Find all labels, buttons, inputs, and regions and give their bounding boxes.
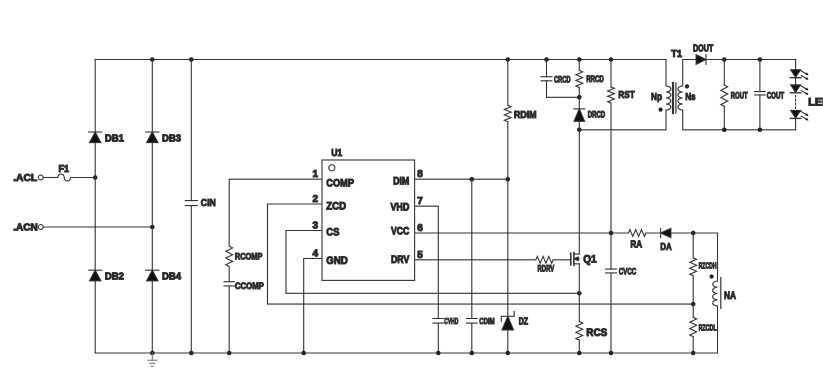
wire secondary top	[683, 60, 696, 87]
zener DZ	[501, 311, 528, 330]
wire DB1 to ACL node	[94, 143, 96, 178]
wire VHD pin7 run	[415, 206, 439, 318]
capacitor CIN	[185, 197, 216, 209]
node out top / ROUT	[722, 57, 727, 62]
svg-text:1: 1	[312, 169, 318, 180]
svg-text:DB1: DB1	[105, 133, 124, 144]
U1 pin name DRV	[391, 254, 410, 266]
diode DRCD	[574, 109, 606, 121]
svg-text:GND: GND	[326, 255, 348, 267]
svg-text:.ACN: .ACN	[13, 222, 38, 234]
U1 pin number 8	[417, 169, 423, 180]
svg-text:CRCD: CRCD	[554, 75, 571, 85]
wire RZCDH top	[692, 233, 694, 258]
U1 pin name GND	[326, 255, 348, 267]
U1 pin number 6	[417, 223, 423, 234]
wire LED1 to LED2	[795, 78, 797, 85]
node top bus / CIN	[189, 57, 194, 62]
wire junction to DRCD	[578, 97, 580, 109]
wire DZ to ground rail	[507, 330, 509, 353]
wire primary top	[665, 60, 667, 87]
svg-text:T1: T1	[671, 48, 682, 60]
node ground rail / CCOMP	[227, 351, 232, 356]
capacitor CDIM	[466, 316, 494, 326]
wire NA top	[717, 233, 719, 281]
LED D3	[790, 110, 808, 120]
U1 pin number 1	[312, 169, 318, 180]
wire CS pin3 run	[286, 231, 579, 294]
wire CCOMP to ground rail	[228, 286, 230, 353]
transformer T1 secondary winding Ns	[678, 86, 696, 110]
node DIM / CDIM	[470, 177, 475, 182]
transformer T1 label	[671, 48, 682, 60]
U1 pin name CS	[326, 227, 339, 239]
node VCC / RST / CVCC	[609, 231, 614, 236]
resistor RZCDH	[690, 258, 717, 276]
svg-text:CS: CS	[326, 227, 339, 239]
node Ns phase dot	[685, 84, 689, 88]
svg-text:.ACL: .ACL	[13, 172, 38, 184]
wire DIM node to DZ	[507, 179, 509, 316]
wire ACN to bridge	[44, 226, 153, 228]
svg-text:VCC: VCC	[391, 226, 409, 238]
wire COUT top	[759, 60, 761, 92]
node top bus / CRCD	[544, 57, 549, 62]
wire ZCD node to RZCDL	[692, 304, 694, 317]
svg-text:Np: Np	[651, 91, 662, 103]
svg-text:RRCD: RRCD	[586, 74, 604, 84]
diode DOUT	[693, 44, 713, 65]
U1 pin number 7	[417, 196, 423, 207]
node ground rail / CDIM	[470, 351, 475, 356]
transistor Q1	[571, 253, 597, 266]
svg-text:RCS: RCS	[586, 327, 607, 339]
node top bus / DB3	[150, 57, 155, 62]
svg-text:DRV: DRV	[391, 254, 410, 266]
LED D1	[790, 70, 808, 80]
node ground rail / RCS	[577, 351, 582, 356]
LED D2	[790, 85, 808, 95]
U1 pin number 5	[417, 250, 423, 261]
resistor RZCDL	[690, 317, 717, 336]
svg-text:RA: RA	[630, 240, 642, 251]
U1 pin name VHD	[391, 201, 410, 213]
capacitor CRCD	[541, 75, 571, 85]
node snubber junction	[577, 95, 582, 100]
wire RDIM to DIM node	[507, 122, 509, 180]
wire DA to NA	[671, 232, 718, 234]
svg-text:Ns: Ns	[685, 91, 696, 103]
svg-text:RZCDH: RZCDH	[699, 261, 717, 271]
wire DB2 to ground rail	[94, 281, 96, 353]
svg-text:CVHD: CVHD	[444, 316, 458, 326]
U1 pin number 3	[312, 221, 318, 232]
wire DB3 column top	[151, 60, 153, 133]
svg-text:DB2: DB2	[105, 272, 124, 283]
wire RRCD to junction	[578, 88, 580, 98]
wire ground rail	[95, 352, 717, 354]
svg-text:6: 6	[417, 223, 423, 234]
diode DB3	[146, 132, 182, 144]
svg-text:7: 7	[417, 196, 423, 207]
svg-text:3: 3	[312, 221, 318, 232]
node ACN / bridge	[150, 225, 155, 230]
wire DRCD to drain node	[578, 121, 580, 130]
aux winding NA	[713, 278, 736, 309]
svg-text:NA: NA	[724, 290, 736, 302]
svg-text:VHD: VHD	[391, 201, 410, 213]
wire DIM pin8 run	[415, 178, 508, 180]
svg-text:CIN: CIN	[201, 197, 216, 209]
node VCC / RZCDH	[691, 231, 696, 236]
svg-text:DRCD: DRCD	[588, 109, 606, 119]
wire dotted LED ellipsis	[795, 96, 797, 109]
wire DB1 column top	[94, 60, 96, 133]
resistor RA	[628, 230, 646, 251]
capacitor CCOMP	[224, 281, 264, 292]
svg-text:F1: F1	[59, 164, 70, 175]
node ground rail / DZ	[506, 351, 511, 356]
wire RZCDL to ground rail	[692, 337, 694, 353]
resistor RDRV	[536, 256, 554, 273]
node ground rail / GND pin	[301, 351, 306, 356]
wire RA to DA	[646, 232, 661, 234]
wire LED column top	[795, 60, 797, 70]
wire primary bottom	[665, 110, 667, 130]
resistor RCS	[576, 322, 607, 341]
resistor RCOMP	[226, 246, 263, 266]
wire ZCD pin2 run	[268, 204, 694, 304]
node ground rail / CIN	[189, 351, 194, 356]
ground earth symbol	[148, 353, 157, 366]
wire RDRV to gate	[553, 259, 571, 261]
wire drain node to primary	[579, 129, 666, 131]
wire DRV pin5 run	[415, 259, 536, 261]
wire CIN top	[190, 60, 192, 201]
svg-text:RST: RST	[618, 89, 635, 101]
node out bottom / COUT	[758, 128, 763, 133]
svg-text:2: 2	[312, 194, 318, 205]
wire CRCD to junction	[547, 81, 580, 98]
U1 pin name VCC	[391, 226, 409, 238]
node ground rail / CVHD	[436, 351, 441, 356]
wire DB3 to ACN node	[151, 143, 153, 227]
svg-text:CDIM: CDIM	[479, 316, 495, 326]
svg-text:DB3: DB3	[162, 133, 181, 144]
wire VCC pin6 run	[415, 232, 629, 234]
wire RST top	[610, 60, 612, 88]
svg-text:8: 8	[417, 169, 423, 180]
svg-text:4: 4	[312, 249, 318, 260]
wire ACL node to DB2	[94, 178, 96, 271]
svg-text:RDRV: RDRV	[538, 264, 555, 274]
node top bus / RDIM	[506, 57, 511, 62]
capacitor CVCC	[606, 233, 637, 353]
wire CDIM top	[471, 179, 473, 318]
svg-text:Q1: Q1	[583, 253, 596, 265]
wire RCOMP to CCOMP	[228, 267, 230, 282]
svg-text:COUT: COUT	[767, 91, 785, 101]
node NA phase dot	[710, 274, 714, 278]
wire ACL to fuse	[43, 177, 57, 179]
node DIM / RDIM	[506, 177, 511, 182]
node CS / Q1 source	[577, 291, 582, 296]
terminal ACN	[13, 222, 43, 234]
svg-text:COMP: COMP	[326, 178, 354, 190]
wire Q1 drain	[578, 130, 580, 254]
U1 pin name COMP	[326, 178, 354, 190]
svg-text:ROUT: ROUT	[731, 91, 748, 101]
U1 pin name ZCD	[326, 200, 346, 212]
node top bus / RST	[609, 57, 614, 62]
capacitor COUT	[755, 91, 785, 101]
wire CDIM to ground rail	[471, 323, 473, 353]
diode DB4	[146, 270, 182, 282]
wire CIN bottom	[190, 206, 192, 353]
wire Q1 source	[578, 264, 580, 294]
wire DOUT to LED string	[706, 59, 796, 61]
svg-text:CVCC: CVCC	[619, 267, 637, 278]
transformer T1 core	[673, 83, 676, 113]
wire secondary bottom	[683, 110, 796, 130]
wire GND pin4 run	[304, 259, 322, 354]
wire RCS to ground rail	[578, 340, 580, 353]
wire NA bottom	[717, 306, 719, 353]
svg-text:DIM: DIM	[393, 175, 409, 187]
wire RZCDH to ZCD node	[692, 276, 694, 304]
node ACL / bridge	[93, 175, 98, 180]
node top bus / RRCD	[577, 57, 582, 62]
wire Q1 source to RCS	[578, 293, 580, 321]
diode DB2	[89, 270, 125, 282]
svg-text:DOUT: DOUT	[693, 44, 713, 55]
wire RRCD top	[578, 60, 580, 71]
svg-text:RZCDL: RZCDL	[699, 323, 717, 333]
node ground rail / RZCDL	[691, 351, 696, 356]
capacitor CVHD	[433, 316, 458, 326]
resistor ROUT	[721, 85, 748, 106]
wire LED column bottom	[795, 118, 797, 129]
svg-text:DA: DA	[660, 241, 672, 253]
svg-text:DZ: DZ	[519, 316, 528, 327]
wire CVHD to ground rail	[437, 323, 439, 353]
wire top bus	[95, 59, 666, 61]
wire COUT bottom	[759, 95, 761, 130]
U1 pin name DIM	[393, 175, 409, 187]
wire CRCD top	[546, 60, 548, 77]
svg-text:LED: LED	[808, 97, 823, 109]
U1 pin number 2	[312, 194, 318, 205]
node ground rail / DB4	[150, 351, 155, 356]
wire COMP pin1 to RCOMP	[229, 179, 322, 246]
wire RST to VCC node	[610, 103, 612, 233]
diode DB1	[89, 132, 125, 144]
transformer T1 primary winding Np	[651, 86, 671, 110]
wire RDIM top	[507, 60, 509, 106]
resistor RDIM	[504, 105, 536, 121]
resistor RRCD	[576, 71, 604, 88]
resistor RST	[608, 87, 636, 103]
wire fuse to bridge	[71, 177, 96, 179]
wire ROUT bottom	[723, 106, 725, 129]
wire DB4 to ground rail	[151, 281, 153, 353]
node ground rail / CVCC	[609, 351, 614, 356]
svg-text:5: 5	[417, 250, 423, 261]
svg-text:U1: U1	[331, 147, 342, 159]
svg-text:ZCD: ZCD	[326, 200, 346, 212]
node Np phase dot	[659, 108, 663, 112]
U1 pin1 indicator	[329, 165, 335, 171]
U1 pin number 4	[312, 249, 318, 260]
wire ROUT top	[723, 60, 725, 86]
node out bottom / ROUT	[722, 128, 727, 133]
svg-text:CCOMP: CCOMP	[235, 281, 265, 292]
diode DA	[660, 228, 672, 252]
svg-text:DB4: DB4	[162, 272, 181, 283]
svg-text:RCOMP: RCOMP	[235, 252, 263, 263]
label LED string	[808, 97, 823, 109]
node ZCD divider	[691, 302, 696, 307]
svg-text:RDIM: RDIM	[514, 110, 537, 121]
op-amp U1 body	[322, 147, 415, 280]
wire ACN node to DB4	[151, 227, 153, 270]
terminal ACL	[13, 172, 43, 184]
node out top / COUT	[758, 57, 763, 62]
node DRCD / drain	[577, 128, 582, 133]
fuse F1	[58, 164, 71, 181]
